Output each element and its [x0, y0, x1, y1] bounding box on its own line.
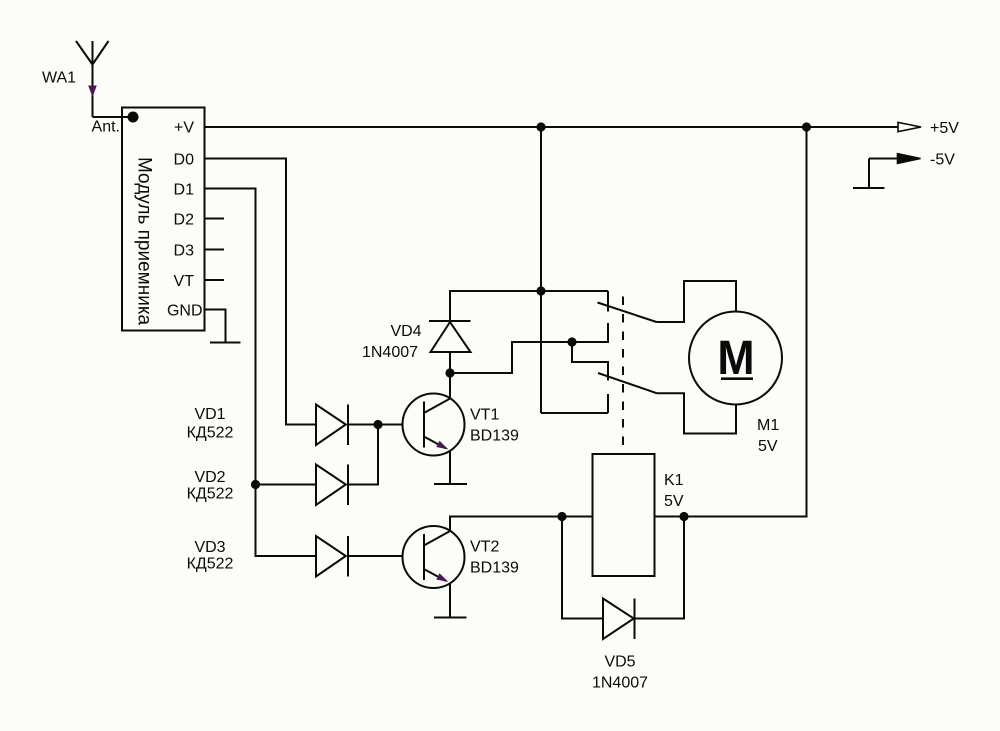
node dot at VD4 rail [536, 286, 545, 295]
node rail dot right [802, 122, 811, 131]
wire VD4 anode to contact 2 common [450, 342, 609, 373]
svg-text:D1: D1 [174, 182, 195, 199]
svg-text:-5V: -5V [930, 152, 955, 169]
wire VD2 cathode up to VT1 base [348, 425, 378, 485]
relay coil K1 [593, 454, 655, 576]
wire VD3 cathode to VT2 base [348, 555, 403, 557]
wire VT1 emitter [449, 451, 451, 485]
diode VD3 [316, 536, 348, 577]
node VD4 anode dot [445, 368, 454, 377]
wire VD5 right leg [635, 517, 685, 619]
wire contact 1 to motor top [657, 281, 737, 322]
diode VD5 [603, 599, 635, 640]
wire VD1 cathode to VT1 base [348, 424, 403, 426]
power +5V arrow [898, 122, 921, 131]
relay linkage dashed line [622, 297, 624, 455]
node Ant junction dot [128, 112, 139, 123]
wire antenna to module Ant pin [93, 116, 134, 118]
svg-text:VD2: VD2 [194, 469, 225, 486]
wire contact 2 lower stub to +V branch [541, 412, 608, 414]
svg-text:5V: 5V [664, 493, 684, 510]
diode VD2 [316, 465, 348, 506]
svg-text:Модуль приемника: Модуль приемника [134, 157, 155, 326]
motor M1 circle [689, 312, 782, 405]
ground module GND [210, 342, 241, 344]
wire right branch rail to relay [655, 127, 807, 517]
wire +V branch down to contacts [540, 127, 542, 413]
node rail dot left [536, 122, 545, 131]
wire D1 pin to VD3 [205, 189, 317, 557]
node relay right dot [679, 512, 688, 521]
diode VD1 [316, 405, 348, 446]
svg-text:BD139: BD139 [470, 428, 519, 445]
transistor VT1 [378, 394, 465, 456]
power -5V arrow [869, 154, 921, 188]
svg-text:D3: D3 [174, 243, 195, 260]
node relay left dot [557, 512, 566, 521]
svg-text:M: M [717, 331, 754, 385]
relay contact 2 common stub [607, 362, 609, 381]
svg-text:GND: GND [167, 303, 203, 320]
wire VT2 collector to relay [450, 517, 593, 531]
wire VD4 anode to VT1 collector [449, 352, 451, 399]
node VT1 base dot [373, 420, 382, 429]
svg-text:VD1: VD1 [194, 406, 225, 423]
svg-text:КД522: КД522 [187, 556, 234, 573]
antenna WA1 [76, 41, 109, 117]
relay contact 1 blade [598, 303, 657, 323]
svg-text:D2: D2 [174, 212, 195, 229]
wire top of VD4 to contact 1 [450, 291, 608, 321]
ground -5V [853, 187, 885, 189]
wire VT stub [205, 279, 225, 281]
wire D1 branch to VD2 [256, 484, 317, 486]
svg-text:VT1: VT1 [470, 407, 499, 424]
diode VD4 [429, 321, 471, 352]
wire VT2 emitter [449, 583, 451, 618]
svg-text:M1: M1 [757, 417, 779, 434]
receiver module box [122, 108, 205, 331]
svg-text:КД522: КД522 [187, 425, 234, 442]
wire GND pin [205, 310, 226, 343]
svg-text:K1: K1 [664, 472, 684, 489]
wire D0 pin to VD1 [205, 159, 317, 425]
wire contact 2 common jog [572, 342, 609, 362]
wire contact 2 to motor bottom [657, 393, 736, 433]
svg-text:WA1: WA1 [42, 70, 76, 87]
wire D2 stub [205, 218, 225, 220]
relay contact 2 blade [598, 373, 657, 393]
wire +V rail [205, 126, 899, 128]
wire D3 stub [205, 249, 225, 251]
svg-text:КД522: КД522 [187, 486, 234, 503]
node contact middle dot [567, 337, 576, 346]
svg-text:VD5: VD5 [604, 654, 635, 671]
svg-text:1N4007: 1N4007 [592, 675, 648, 692]
svg-text:Ant.: Ant. [92, 119, 120, 136]
svg-text:5V: 5V [758, 438, 778, 455]
motor M underline [721, 377, 753, 380]
transistor VT2 [403, 526, 465, 588]
svg-text:+5V: +5V [930, 120, 959, 137]
svg-text:1N4007: 1N4007 [362, 344, 418, 361]
wire VD5 left leg [562, 517, 603, 619]
svg-text:VT: VT [174, 273, 195, 290]
svg-text:+V: +V [174, 120, 194, 137]
ground VT1 emitter [434, 483, 467, 485]
svg-text:VD3: VD3 [194, 539, 225, 556]
relay contact 1 common stub [607, 291, 609, 312]
node D1 branch dot [251, 480, 260, 489]
svg-text:VT2: VT2 [470, 539, 499, 556]
svg-text:VD4: VD4 [390, 323, 421, 340]
relay contact 2 lower stub [607, 394, 609, 413]
svg-text:BD139: BD139 [470, 560, 519, 577]
relay contact 1 lower stub [607, 323, 609, 342]
svg-text:D0: D0 [174, 152, 195, 169]
ground VT2 emitter [434, 617, 467, 619]
